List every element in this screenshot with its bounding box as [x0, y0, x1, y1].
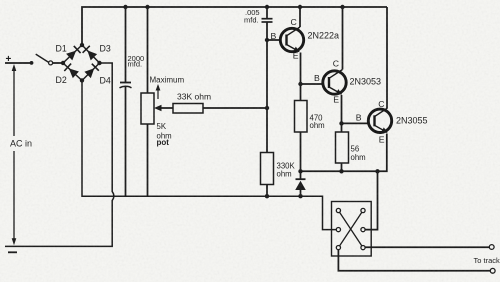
wire bridge right node to bottom left rail [5, 63, 114, 246]
wire node to 470 resistor [300, 84, 302, 101]
annotation AC-in arrow line upper [13, 68, 15, 136]
terminal to-track bottom [490, 268, 495, 273]
wire Q1 collector to rail [299, 7, 301, 27]
node dot rail x267 [265, 5, 269, 9]
wire switch right feed [365, 171, 378, 229]
wire Q3 base lead [342, 122, 369, 124]
node dot switch feed junction [375, 169, 379, 173]
diode D4 [84, 68, 94, 78]
bridge rectifier diamond [63, 45, 100, 81]
diode D1 [66, 51, 76, 61]
node dot Q3 base junction [339, 121, 343, 125]
resistor R5 56 body [336, 132, 349, 163]
node dot rail x126 [123, 5, 127, 9]
transistor Q3 2N3055 [368, 108, 391, 133]
wire Q2 base lead [301, 83, 323, 85]
node dot bridge top [80, 43, 84, 47]
wire Q3 emitter down to 171 line [301, 134, 387, 172]
wire diode D5 to mid rail [300, 190, 302, 196]
wire 2000mfd capacitor branch bottom [125, 87, 127, 197]
wire pot branch bottom [147, 124, 149, 196]
arrow pot wiper [154, 105, 162, 111]
transistor Q1 2N222a [280, 27, 303, 52]
node dot 330K bottom [265, 194, 269, 198]
wire Q2 collector to rail [342, 7, 344, 70]
wire switch to bridge [53, 62, 63, 64]
node dot rail x342 [340, 5, 344, 9]
wire 2000mfd capacitor branch top [125, 7, 127, 82]
wire 33K to node [203, 107, 267, 109]
wire pot wiper to 33K [160, 107, 173, 109]
switch DPDT cross wire 1 [338, 211, 363, 248]
resistor R3 330K body [261, 153, 274, 185]
node dot bridge right [97, 61, 101, 65]
switch S1 contact circle [49, 61, 53, 65]
wire top rail [82, 7, 387, 45]
node dot 470 bottom junction [298, 169, 302, 173]
wire base node down to 33K node [266, 40, 268, 108]
wire 171 node to diode D5 [300, 171, 302, 179]
annotation AC-in arrow line lower [13, 151, 15, 242]
switch terminal circles [336, 208, 365, 249]
transistor Q2 2N3053 [323, 70, 346, 95]
wire 56 resistor bottom [341, 163, 343, 171]
wire .005 cap to base node [266, 23, 268, 41]
resistor R4 470 body [295, 101, 308, 133]
wire .005 cap branch [266, 7, 268, 18]
wire pot branch top [147, 7, 149, 93]
annotation minus sign [8, 251, 17, 253]
node dot 33K junction [265, 106, 269, 110]
arrow AC-in down [12, 238, 17, 245]
node dot Q1 base [265, 38, 269, 42]
wire Q1 emitter down to Q2 base node [300, 53, 302, 85]
switch S1 lever [36, 54, 49, 62]
wire 56 resistor top [341, 123, 343, 132]
wire track output bottom [338, 250, 490, 271]
wire Q2 emitter down to Q3 base node [341, 95, 343, 123]
terminal to-track top [489, 245, 494, 250]
node dot 56 bottom junction [339, 169, 343, 173]
capacitor C1 2000mfd plates [120, 82, 131, 84]
capacitor C2 .005 plates [262, 18, 273, 20]
node dot rail x300 [298, 5, 302, 9]
switch DPDT cross wire 2 [338, 211, 363, 248]
wire 330K to mid rail [266, 185, 268, 197]
diode D5 body [295, 181, 306, 190]
wire Q3 collector to rail end [386, 7, 388, 108]
wire 33K node to 330K [266, 108, 268, 153]
arrow maximum [156, 84, 161, 91]
wire track output top [365, 246, 489, 248]
wire Q1 base lead [267, 39, 280, 41]
arrow AC-in up [12, 64, 17, 71]
wire bridge bottom to mid rail [82, 81, 336, 230]
node dot diode bottom [298, 194, 302, 198]
diode D2 [69, 68, 79, 78]
node dot bridge bottom [80, 78, 84, 82]
wire 470 to 171 line [300, 132, 302, 171]
diode D3 [87, 50, 97, 60]
node dot Q2 base junction [298, 82, 302, 86]
wire AC plus terminal lead [5, 62, 31, 64]
node dot switch pole [30, 61, 34, 65]
switch DPDT box [332, 202, 372, 257]
node dot bridge left [61, 61, 65, 65]
resistor R2 33K body [173, 104, 203, 114]
potentiometer R1 5K body [141, 93, 154, 124]
node dot rail x148 [145, 5, 149, 9]
